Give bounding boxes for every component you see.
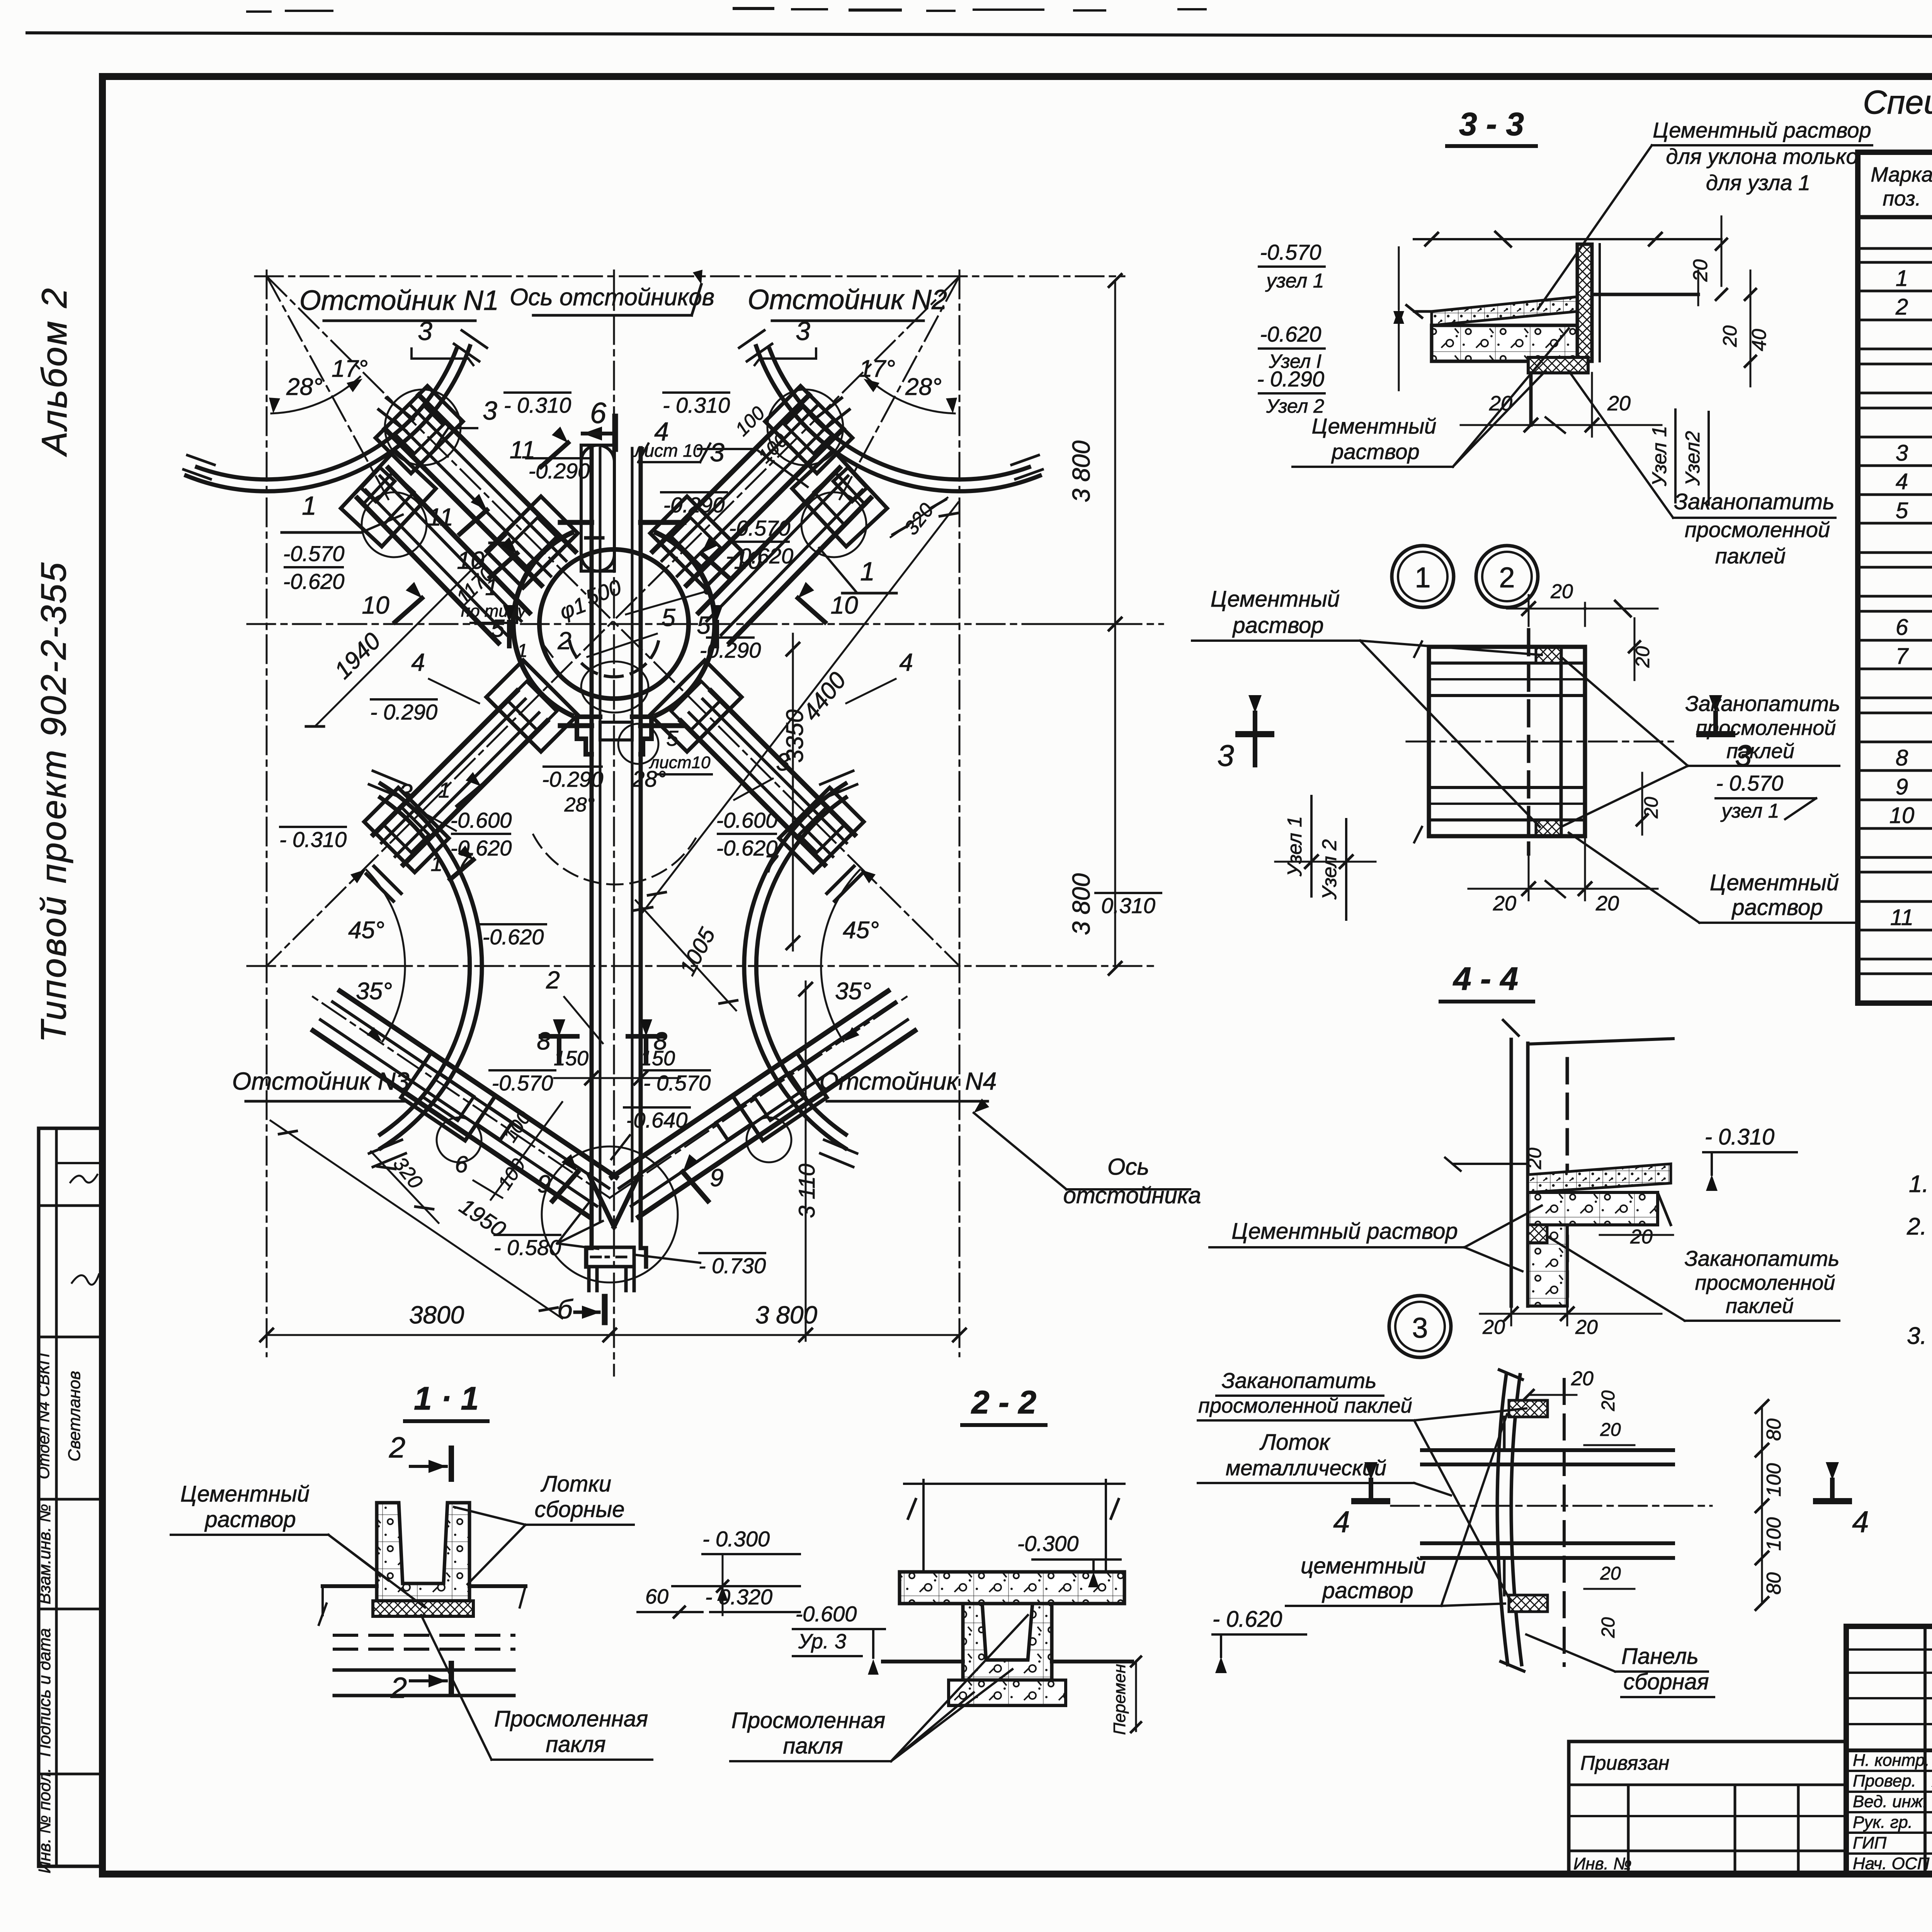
section 4-4 title: [1440, 961, 1533, 1002]
svg-text:2: 2: [390, 1672, 407, 1704]
svg-text:паклей: паклей: [1715, 544, 1786, 568]
plan: end bracket lower-left channel: [364, 787, 449, 901]
svg-text:3 - 3: 3 - 3: [1459, 106, 1524, 142]
plan: axis label right: [974, 1099, 1201, 1208]
svg-text:Спецификация к схеме распол: Спецификация к схеме расположения лотков…: [1863, 84, 1932, 121]
plan: channel lower-left 45: [373, 691, 547, 865]
svg-text:Цементный: Цементный: [1211, 587, 1340, 612]
svg-text:- 0.570: - 0.570: [1716, 771, 1783, 795]
plan: dim 1950 diagonal: [270, 1121, 562, 1318]
svg-text:3: 3: [399, 779, 413, 807]
plan: dim 3800 bottom: [260, 1301, 966, 1341]
svg-text:-0.620: -0.620: [1260, 322, 1321, 346]
svg-text:Цементный: Цементный: [180, 1481, 310, 1507]
svg-text:5: 5: [662, 604, 675, 631]
svg-text:- 0.580: - 0.580: [494, 1235, 561, 1260]
section 3-3 dims right: [1689, 216, 1770, 386]
svg-text:Узел 1: Узел 1: [1284, 816, 1306, 877]
svg-text:17°: 17°: [332, 355, 368, 382]
svg-text:2: 2: [389, 1431, 405, 1464]
rings detail uzel rotated labels left: [1275, 796, 1376, 920]
svg-text:2: 2: [1895, 294, 1908, 320]
title block outer box: [1846, 1626, 1932, 1874]
plan: inlet pipe oval top: [581, 445, 614, 571]
plan: vertical central channel: [586, 448, 646, 1291]
svg-text:Нач. ОСП: Нач. ОСП: [1853, 1854, 1930, 1873]
svg-text:2: 2: [557, 627, 571, 655]
plan: channel upper-left B (pos.1 inlet): [357, 468, 529, 643]
svg-text:1: 1: [302, 491, 316, 520]
plan: chamber pocket lower-left: [486, 660, 578, 752]
svg-text:6: 6: [590, 397, 607, 430]
section 2-2 peremen dim: [1110, 1656, 1141, 1735]
svg-text:Перемен.: Перемен.: [1110, 1659, 1129, 1735]
svg-text:-0.570: -0.570: [1260, 240, 1321, 264]
rings detail top dim: [1507, 580, 1658, 626]
svg-text:28°: 28°: [564, 794, 595, 816]
svg-text:1: 1: [438, 778, 450, 802]
plan: dim 100 labels: [491, 402, 792, 1200]
plan: dim 3800 right vertical: [1024, 274, 1132, 975]
svg-text:Инв. № подл.: Инв. № подл.: [35, 1768, 54, 1873]
svg-text:Просмоленная: Просмоленная: [731, 1708, 885, 1733]
svg-text:3 800: 3 800: [755, 1301, 818, 1329]
plan: chamber pocket upper-right: [650, 497, 742, 588]
svg-text:80: 80: [1763, 1418, 1785, 1441]
svg-text:20: 20: [1630, 1226, 1653, 1248]
svg-text:- 0.620: - 0.620: [1213, 1607, 1282, 1632]
svg-text:1: 1: [1415, 561, 1430, 594]
plan: chamber bottom outlet steps: [577, 717, 651, 754]
section 3-3 dims bottom: [1461, 373, 1662, 437]
plan: channel upper-left A: [379, 395, 575, 585]
left margin stamp boxes: [39, 1128, 102, 1866]
section 2-2 channel below: [883, 1604, 1132, 1706]
svg-text:-0.570: -0.570: [492, 1071, 553, 1095]
plan: angle labels bottom-right: [821, 869, 879, 1041]
svg-text:Отстойник N2: Отстойник N2: [748, 284, 947, 315]
svg-text:20: 20: [1550, 580, 1573, 603]
svg-text:2 - 2: 2 - 2: [971, 1384, 1036, 1420]
svg-text:100: 100: [1763, 1463, 1785, 1497]
svg-text:3: 3: [796, 316, 810, 346]
svg-text:35°: 35°: [356, 978, 392, 1005]
plan: axis lines dash-dot: [247, 270, 1163, 1376]
rings detail section 3 cut markers: [1217, 695, 1752, 772]
svg-text:-0.600: -0.600: [796, 1602, 857, 1626]
svg-text:3 800: 3 800: [1067, 440, 1095, 503]
section 4-4 wall and screed: [1445, 1020, 1673, 1306]
svg-text:2.: 2.: [1906, 1213, 1927, 1240]
plan: chamber pocket lower-right: [650, 660, 742, 752]
section 4-4 elevation right: [1703, 1124, 1797, 1191]
svg-text:-0.640: -0.640: [626, 1108, 688, 1132]
svg-text:4 - 4: 4 - 4: [1452, 961, 1518, 997]
svg-text:- 0.290: - 0.290: [370, 700, 437, 724]
section 4-4 dims: [1480, 1136, 1673, 1338]
section 1-1 oakum label: [421, 1615, 652, 1760]
svg-text:просмоленной: просмоленной: [1695, 1271, 1835, 1294]
section 1-1 channel cross-section: [323, 1503, 526, 1616]
section 1-1 trays label: [454, 1471, 634, 1584]
svg-text:4: 4: [1333, 1505, 1350, 1539]
plan: chamber inner dashed arc and bubbles: [570, 641, 658, 764]
plan: V junction bubble: [542, 1146, 678, 1282]
spec table grid: [1858, 152, 1932, 1003]
panel detail elevation: [1213, 1607, 1306, 1673]
svg-text:1: 1: [860, 557, 875, 586]
svg-text:28°: 28°: [632, 767, 666, 792]
section 3-3 slope note: [1538, 118, 1872, 309]
section 1-1 ground lines: [319, 1586, 526, 1716]
svg-text:для уклона только: для уклона только: [1666, 144, 1858, 168]
svg-text:пакля: пакля: [546, 1732, 605, 1757]
title block left extension: [1569, 1742, 1846, 1874]
section 2-2 elevation: [1017, 1531, 1121, 1587]
paper top edge line: [27, 9, 1932, 38]
plan: dim 1940 diagonal: [306, 535, 507, 726]
svg-text:Отстойник N4: Отстойник N4: [820, 1067, 997, 1095]
svg-text:-0.620: -0.620: [283, 569, 345, 594]
svg-text:Н. контр.: Н. контр.: [1853, 1751, 1930, 1770]
plan: channel lower-right 45: [681, 691, 855, 865]
panel detail cut markers 4: [1333, 1462, 1869, 1539]
svg-text:-0.290: -0.290: [700, 638, 761, 662]
svg-text:Отстойник N1: Отстойник N1: [299, 285, 499, 316]
svg-text:раствор: раствор: [204, 1507, 296, 1532]
svg-text:45°: 45°: [843, 917, 879, 944]
svg-text:5: 5: [697, 611, 711, 639]
section 3-3 title: [1447, 106, 1536, 146]
rings detail cement label bottom-right: [1569, 833, 1855, 923]
panel sborna label: [1526, 1634, 1714, 1697]
svg-text:5: 5: [1896, 498, 1908, 523]
svg-text:20: 20: [1607, 392, 1631, 415]
plan: elevation labels group: [279, 393, 1161, 1278]
svg-text:4: 4: [1896, 469, 1908, 494]
svg-text:2: 2: [546, 966, 560, 994]
plan: channel upper-right B (pos.1 inlet): [699, 468, 871, 643]
svg-text:сборная: сборная: [1623, 1669, 1709, 1694]
rings detail caulk label right: [1561, 657, 1840, 827]
plan: channel bottom-left to V: [313, 991, 616, 1217]
svg-text:6: 6: [1896, 615, 1908, 640]
section 4-4 cement label: [1209, 1206, 1542, 1271]
panel detail curved wall: [1497, 1370, 1564, 1671]
svg-text:-0.290: -0.290: [542, 767, 604, 791]
svg-text:Узел2: Узел2: [1682, 431, 1704, 486]
svg-text:20: 20: [1575, 1316, 1598, 1338]
svg-text:1: 1: [1896, 266, 1908, 291]
svg-text:Цементный раствор: Цементный раствор: [1231, 1219, 1458, 1244]
section 4-4 caulk label: [1548, 1236, 1839, 1321]
plan: section cut 6 bottom: [557, 1294, 605, 1324]
svg-text:9: 9: [537, 1170, 551, 1198]
svg-text:Заканопатить: Заканопатить: [1685, 691, 1840, 716]
section 2-2 slab: [900, 1480, 1124, 1604]
svg-text:10: 10: [734, 546, 762, 574]
svg-text:8: 8: [1896, 745, 1908, 770]
plan: connector bracket UR-B inlet on arc: [792, 451, 887, 557]
svg-text:20: 20: [1689, 259, 1712, 282]
svg-text:28°: 28°: [905, 374, 942, 400]
section 3-3 slab and screed: [1406, 297, 1588, 361]
plan: distribution chamber wall: [513, 522, 715, 726]
svg-text:Провер.: Провер.: [1853, 1772, 1916, 1791]
svg-text:20: 20: [1598, 1390, 1619, 1412]
svg-text:отстойника: отстойника: [1063, 1182, 1201, 1208]
section 3-3 elevation labels left: [1257, 240, 1404, 417]
svg-text:9: 9: [710, 1164, 724, 1192]
svg-text:4: 4: [899, 648, 913, 676]
svg-text:паклей: паклей: [1726, 1294, 1794, 1318]
svg-text:2: 2: [1499, 561, 1515, 594]
svg-text:3: 3: [776, 748, 790, 776]
detail nodes 1 2 circles: [1392, 546, 1538, 607]
svg-text:Альбом 2: Альбом 2: [35, 287, 74, 457]
svg-text:узел 1: узел 1: [1720, 800, 1779, 822]
svg-text:10: 10: [830, 591, 858, 619]
svg-text:3: 3: [418, 316, 432, 346]
plan: angle labels top-left: [269, 355, 368, 413]
svg-text:60: 60: [645, 1585, 668, 1608]
svg-text:20: 20: [1719, 325, 1741, 347]
svg-text:100: 100: [1763, 1517, 1785, 1551]
plan: connector bracket UL-A on arc: [376, 386, 463, 473]
svg-text:- 0.310: - 0.310: [1705, 1124, 1775, 1150]
svg-text:20: 20: [1600, 1420, 1621, 1440]
rings detail cement label top-left: [1192, 587, 1542, 827]
svg-text:20: 20: [1524, 1148, 1545, 1170]
svg-text:-0.570: -0.570: [729, 516, 791, 540]
svg-text:Типовой проект 902-2-355: Типовой проект 902-2-355: [34, 561, 73, 1043]
svg-text:- 0.310: - 0.310: [279, 827, 347, 852]
plan: dim 1170 small: [452, 563, 498, 609]
svg-text:11: 11: [428, 503, 453, 531]
plan: leader number labels: [282, 316, 913, 1201]
detail node 3 circle: [1389, 1296, 1451, 1357]
svg-text:3: 3: [1896, 440, 1908, 466]
svg-text:28°: 28°: [286, 374, 323, 400]
svg-text:Узел 2: Узел 2: [1318, 839, 1341, 900]
spec table header text: [1871, 162, 1932, 219]
svg-text:Вед. инж.: Вед. инж.: [1853, 1792, 1927, 1811]
section 1-1 cement label: [171, 1481, 425, 1607]
plan: 28 deg labels bottom channels: [533, 767, 696, 884]
svg-text:5: 5: [666, 726, 679, 750]
svg-text:20: 20: [1482, 1316, 1505, 1338]
svg-text:металлический: металлический: [1226, 1456, 1386, 1480]
svg-text:Взам.инв. №: Взам.инв. №: [35, 1504, 54, 1604]
svg-text:1: 1: [517, 641, 528, 661]
svg-text:11: 11: [510, 436, 535, 464]
svg-text:6: 6: [455, 1151, 468, 1177]
svg-text:20: 20: [1595, 892, 1619, 915]
section 3-3 cement mortar label: [1293, 328, 1569, 467]
section 2-2 level label: [793, 1602, 885, 1675]
plan: angle labels bottom-left: [348, 869, 405, 1041]
svg-text:9: 9: [1896, 774, 1908, 799]
svg-text:3: 3: [1412, 1312, 1428, 1344]
svg-text:раствор: раствор: [1731, 895, 1823, 920]
svg-text:Лоток: Лоток: [1259, 1430, 1331, 1455]
plan: dim 3110 vertical: [794, 981, 820, 1341]
title block horizontal lines left part: [1846, 1650, 1932, 1854]
svg-text:- 0.570: - 0.570: [643, 1071, 711, 1095]
svg-text:пакля: пакля: [783, 1733, 843, 1759]
svg-text:10: 10: [1889, 803, 1915, 828]
svg-text:11: 11: [1890, 905, 1913, 930]
svg-text:-0.300: -0.300: [1017, 1531, 1079, 1556]
svg-text:20: 20: [1640, 797, 1662, 819]
svg-text:ГИП: ГИП: [1853, 1833, 1886, 1852]
plan: channel bottom-right to V: [612, 991, 915, 1217]
svg-text:80: 80: [1763, 1572, 1785, 1595]
plan: crossing bracket channel-N4 arc: [716, 1053, 827, 1162]
svg-text:Светланов: Светланов: [65, 1371, 84, 1461]
plan: dim 150 150 bottom channel: [554, 1047, 680, 1084]
svg-text:Марка: Марка: [1871, 163, 1932, 186]
plan: channel upper-right A: [653, 395, 849, 585]
svg-text:- 0.300: - 0.300: [702, 1527, 770, 1551]
plan: end bracket lower-right channel: [779, 787, 864, 901]
svg-text:Инв. №: Инв. №: [1573, 1854, 1632, 1873]
svg-text:узел 1: узел 1: [1265, 270, 1324, 292]
svg-text:Цементный: Цементный: [1312, 414, 1437, 438]
plan: connector bracket UL-B inlet on arc: [341, 451, 436, 557]
svg-text:-0.570: -0.570: [283, 541, 345, 566]
svg-text:20: 20: [1571, 1367, 1594, 1390]
plan: dim 3350 vertical: [782, 634, 808, 951]
svg-text:Ур. 3: Ур. 3: [798, 1630, 846, 1653]
svg-text:Цементный раствор: Цементный раствор: [1653, 118, 1871, 142]
svg-text:- 0.310: - 0.310: [663, 393, 730, 417]
svg-text:4: 4: [411, 648, 425, 676]
svg-text:Узел 1: Узел 1: [1648, 426, 1671, 486]
section 2-2 oakum label: [730, 1615, 1028, 1761]
svg-text:1: 1: [430, 851, 442, 876]
svg-text:3800: 3800: [409, 1301, 464, 1329]
svg-text:Заканопатить: Заканопатить: [1674, 489, 1834, 514]
plan: tank name labels: [232, 284, 997, 1101]
svg-text:8: 8: [653, 1027, 667, 1055]
svg-text:-0.620: -0.620: [483, 925, 544, 949]
section 3-3 top dim line: [1414, 232, 1721, 247]
svg-text:3 110: 3 110: [794, 1164, 820, 1218]
svg-text:1.: 1.: [1909, 1171, 1929, 1197]
svg-text:б: б: [557, 1294, 573, 1324]
title block names column: [1853, 1751, 1932, 1873]
svg-text:Отстойник N3: Отстойник N3: [232, 1067, 410, 1095]
svg-text:3: 3: [710, 438, 724, 467]
left stamp labels rotated: [34, 1175, 99, 1874]
svg-text:45°: 45°: [348, 917, 384, 944]
rings detail elevation right: [1716, 771, 1816, 822]
section 3-3 wall right: [1528, 244, 1698, 425]
svg-text:-0.290: -0.290: [529, 459, 590, 483]
panel detail channel lines: [1391, 1400, 1712, 1612]
plan: angle labels top-right: [859, 355, 957, 413]
svg-text:поз.: поз.: [1883, 187, 1921, 210]
plan: crossing bracket channel-N3 arc: [401, 1053, 512, 1162]
svg-text:- 0.290: - 0.290: [1257, 367, 1324, 391]
panel detail 20 dims: [1524, 1367, 1634, 1638]
plan: dim 1005 diagonal: [634, 900, 737, 1010]
svg-text:Ось отстойников: Ось отстойников: [510, 284, 714, 311]
spec table rows text: [1889, 266, 1932, 930]
svg-text:сборные: сборные: [535, 1497, 625, 1522]
svg-text:Цементный: Цементный: [1710, 870, 1839, 895]
svg-text:3: 3: [483, 396, 497, 425]
svg-text:раствор: раствор: [1331, 439, 1419, 464]
section 3-3 caulk note: [1569, 371, 1835, 568]
spec table title: [1863, 84, 1932, 155]
svg-text:Заканопатить: Заканопатить: [1685, 1246, 1840, 1270]
svg-text:для узла 1: для узла 1: [1706, 170, 1810, 195]
section 1-1 cut marker 2 bottom: [390, 1663, 451, 1704]
svg-text:10: 10: [362, 591, 389, 619]
svg-text:Лотки: Лотки: [540, 1471, 611, 1497]
svg-text:3.: 3.: [1907, 1323, 1927, 1349]
left margin text Tipovoy proekt 902-2-355: [34, 561, 73, 1043]
plan: section cut 6 top: [583, 397, 615, 449]
rings detail bottom dims: [1468, 836, 1658, 915]
plan: tank N1 wall arc: [184, 330, 487, 491]
svg-text:20: 20: [1632, 646, 1653, 668]
svg-text:10: 10: [457, 546, 485, 574]
panel detail cement label: [1286, 1414, 1507, 1606]
plan: chamber pocket upper-left: [486, 497, 578, 588]
panel detail caulk label: [1198, 1368, 1526, 1602]
panel detail right dims: [1673, 1400, 1785, 1610]
svg-text:Рук. гр.: Рук. гр.: [1853, 1813, 1913, 1832]
section 1-1 right dims: [638, 1527, 800, 1617]
svg-text:Отдел N4 СВКП: Отдел N4 СВКП: [34, 1353, 53, 1479]
plan: dim 4400 diagonal: [641, 502, 958, 914]
plan: tank N3 wall arc: [369, 771, 482, 1167]
svg-text:4: 4: [1852, 1505, 1869, 1539]
section 2-2 title: [962, 1384, 1046, 1425]
svg-text:раствор: раствор: [1232, 613, 1323, 638]
svg-text:цементный: цементный: [1301, 1553, 1426, 1578]
svg-text:- 0.320: - 0.320: [705, 1585, 772, 1609]
svg-text:17°: 17°: [859, 355, 895, 382]
svg-text:Панель: Панель: [1621, 1644, 1699, 1669]
svg-text:7: 7: [1896, 644, 1909, 669]
plan: tank N2 wall arc: [739, 330, 1043, 491]
panel detail metal tray label: [1198, 1430, 1451, 1495]
svg-text:35°: 35°: [835, 978, 871, 1005]
svg-text:20: 20: [1598, 1617, 1619, 1638]
svg-text:-0.290: -0.290: [663, 493, 725, 517]
svg-text:1 · 1: 1 · 1: [414, 1380, 479, 1417]
svg-text:Привязан: Привязан: [1580, 1752, 1669, 1774]
svg-text:40: 40: [1748, 329, 1770, 351]
svg-text:-0.600: -0.600: [716, 808, 778, 832]
left margin text Albom 2: [35, 287, 74, 457]
section 1-1 cut marker 2 top: [389, 1431, 451, 1479]
svg-text:Заканопатить: Заканопатить: [1222, 1368, 1377, 1393]
svg-text:просмоленной: просмоленной: [1696, 716, 1836, 740]
title block vertical dividers: [1925, 1626, 1932, 1874]
rings detail right dims: [1585, 618, 1662, 835]
svg-text:просмоленной паклей: просмоленной паклей: [1198, 1394, 1412, 1417]
svg-text:0.310: 0.310: [1101, 893, 1155, 918]
svg-text:5: 5: [491, 614, 505, 642]
svg-text:- 0.730: - 0.730: [699, 1253, 766, 1278]
svg-text:-0.600: -0.600: [451, 808, 512, 832]
svg-text:Подпись и дата: Подпись и дата: [35, 1628, 54, 1757]
